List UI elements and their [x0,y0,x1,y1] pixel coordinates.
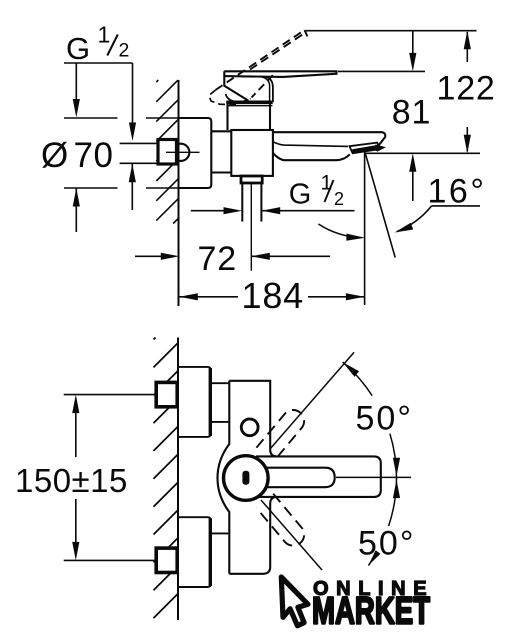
svg-text:2: 2 [119,40,130,62]
svg-text:150±15: 150±15 [15,462,128,499]
svg-text:16°: 16° [428,173,487,211]
svg-text:184: 184 [242,275,304,316]
svg-text:1: 1 [98,22,111,48]
svg-text:2: 2 [334,189,344,209]
svg-text:50°: 50° [356,400,413,438]
svg-text:G: G [289,179,312,211]
svg-text:70: 70 [74,136,114,175]
svg-text:72: 72 [198,240,237,278]
svg-text:81: 81 [392,94,431,132]
svg-text:MARKET: MARKET [312,591,430,633]
svg-text:G: G [66,31,91,66]
svg-text:122: 122 [437,70,496,108]
svg-text:Ø: Ø [41,136,68,175]
svg-text:50°: 50° [358,525,415,563]
svg-text:1: 1 [321,172,333,195]
